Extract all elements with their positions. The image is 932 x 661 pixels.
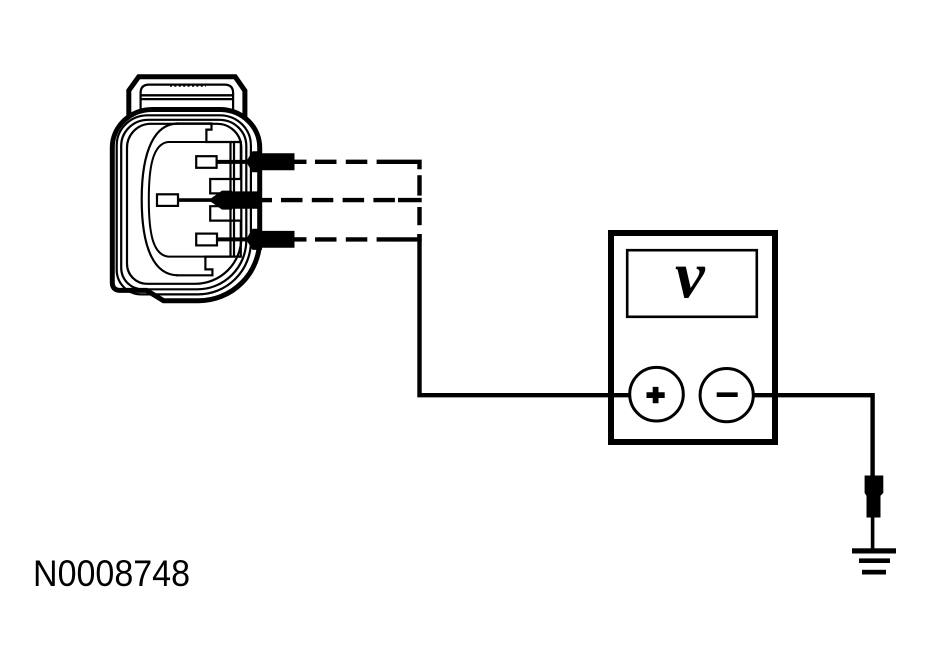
pin housing notch upper <box>210 142 241 193</box>
minus sign <box>717 392 738 397</box>
pin housing bottom step <box>176 257 242 276</box>
wire from minus terminal <box>753 395 872 476</box>
pin 2 wire <box>178 198 214 202</box>
connector cap inner liner <box>141 85 234 120</box>
dashed vertical joiner segment A <box>417 175 421 195</box>
probe 1 stub <box>295 160 307 164</box>
pin 3 terminal <box>196 234 217 246</box>
voltmeter display window <box>627 250 757 317</box>
dashed lead 2 <box>281 198 398 202</box>
pin cavity liner <box>149 142 231 257</box>
pin 1 wire <box>217 160 252 164</box>
pin housing wall line outer <box>229 142 231 257</box>
pin 1 terminal <box>196 156 216 168</box>
voltmeter U1 body <box>611 233 775 442</box>
svg-text:N0008748: N0008748 <box>33 553 190 594</box>
pin housing left arc <box>142 124 178 276</box>
ground probe tip <box>865 476 884 518</box>
probe 3 stub <box>295 237 307 241</box>
wire to voltmeter <box>420 234 631 395</box>
dashed vertical joiner segment B <box>417 207 421 225</box>
wire to ground <box>871 518 875 550</box>
dashed lead 1 <box>315 160 399 164</box>
ground symbol bar 1 <box>852 548 896 553</box>
connector seal ring 3 <box>127 124 241 284</box>
connector cap liner edge ticks <box>170 85 206 87</box>
probe tip 3 <box>246 229 295 250</box>
probe tip 2 <box>209 191 259 210</box>
connector body outer shell <box>112 110 259 301</box>
svg-text:v: v <box>675 239 706 313</box>
pin 3 wire <box>217 237 252 241</box>
connector cap rib line lower <box>141 98 234 100</box>
connector cap outer shell <box>129 77 245 120</box>
probe 2 stub <box>259 198 273 202</box>
minus terminal circle <box>700 369 753 422</box>
connector seal ring 1 <box>117 115 251 294</box>
connector seal ring 2 <box>121 120 246 289</box>
pin housing wall line inner <box>233 142 235 257</box>
plus terminal circle <box>630 367 684 421</box>
wire into plus terminal <box>608 393 632 397</box>
dashed lead 3 <box>315 237 399 241</box>
dashed lead 3 corner solid <box>398 234 420 239</box>
ground symbol bar 3 <box>862 570 886 575</box>
ground symbol bar 2 <box>859 558 890 563</box>
pin housing notch lower <box>210 206 241 256</box>
probe tip 1 <box>246 151 295 172</box>
pin housing top step <box>176 124 242 143</box>
dashed lead 1 corner solid <box>398 162 420 170</box>
pin 2 terminal <box>157 194 178 206</box>
dashed lead 2 corner solid <box>398 198 422 202</box>
plus sign <box>647 387 665 403</box>
connector cap rib line upper <box>141 94 234 96</box>
